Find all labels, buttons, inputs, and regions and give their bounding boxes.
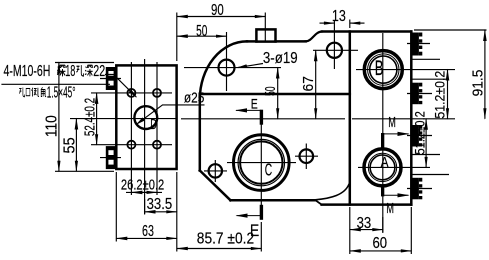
svg-text:55: 55 [61, 137, 78, 153]
section bar E bottom [260, 205, 263, 220]
hole3 h centerline [313, 49, 358, 51]
flange bolt hole 3 [127, 141, 135, 149]
right block bottom edge [322, 203, 412, 206]
bottom right fillet tail [315, 185, 348, 200]
bottom left diagonal [200, 171, 231, 201]
o19 hole h centerline [184, 67, 281, 69]
svg-text:50: 50 [262, 86, 279, 96]
section bar E top [260, 110, 263, 125]
svg-text:110: 110 [44, 115, 61, 137]
block vertical centerline [382, 33, 384, 232]
svg-text:18: 18 [65, 63, 75, 80]
section bar M top [381, 133, 384, 150]
svg-text:3-ø19: 3-ø19 [263, 50, 298, 67]
dim 52.4 [96, 93, 98, 145]
dim 55 [75, 119, 77, 172]
top line tab to fillet [276, 40, 306, 43]
flange hole column lines [131, 62, 157, 195]
section arrow M top [383, 133, 409, 135]
cjk kong 2 [19, 88, 25, 97]
plug 3 [413, 125, 423, 147]
cjk dao [32, 88, 39, 97]
C horizontal centerline [227, 162, 296, 164]
ext lines 33/60 [349, 207, 351, 254]
section bar M bottom [381, 185, 384, 197]
flange bolt hole 4 [153, 141, 161, 149]
o19 hole left [219, 60, 235, 76]
plug 4 [413, 178, 423, 200]
svg-text:91.5: 91.5 [469, 69, 485, 96]
dim 50 vertical [277, 68, 279, 119]
flange bolt hole 1 [127, 89, 135, 97]
label 4-M10 leader [105, 75, 136, 98]
svg-text:1.5×45°: 1.5×45° [47, 84, 76, 101]
main horizontal centerline [70, 118, 455, 120]
section arrow E bottom [237, 215, 262, 217]
small hole right of C [300, 149, 314, 163]
flange outline [116, 65, 176, 169]
svg-text:26.2±0.2: 26.2±0.2 [121, 176, 164, 193]
svg-text:60: 60 [373, 235, 388, 252]
tab boss [256, 29, 275, 41]
svg-text:51.2±0.2: 51.2±0.2 [432, 71, 448, 119]
plug 1 [413, 33, 423, 56]
right block left edge [349, 32, 352, 205]
svg-text:85.7 ±0.2: 85.7 ±0.2 [197, 231, 254, 248]
body bottom edge [230, 199, 315, 202]
ext lines left [55, 62, 114, 64]
body left edge [199, 94, 202, 171]
svg-text:4-M10-6H: 4-M10-6H [4, 62, 51, 79]
o19 hole v centerline [226, 32, 228, 91]
plug centerlines [100, 79, 121, 158]
flange hole row lines [91, 93, 172, 145]
svg-text:90: 90 [211, 1, 224, 18]
right small hole cross [295, 144, 318, 170]
dim 63 [116, 237, 177, 239]
svg-text:ø25: ø25 [184, 89, 204, 105]
flange vertical centerline [144, 59, 146, 214]
svg-text:22: 22 [93, 62, 105, 79]
svg-text:52.4±0.2: 52.4±0.2 [82, 98, 98, 136]
svg-text:C: C [265, 161, 273, 181]
bottom chamfer to block bottom [315, 200, 321, 204]
plug 2 [413, 83, 423, 105]
right edge small lines [412, 59, 449, 174]
cjk kou [26, 88, 30, 95]
dim 33 [350, 229, 383, 231]
ext lines bottom [115, 172, 117, 242]
dim 26.2 [126, 191, 162, 193]
hole3 v centerline [333, 21, 335, 70]
cjk kong 1 [76, 65, 83, 76]
left plug bottom [106, 146, 117, 169]
dim 51.2 upper [447, 70, 449, 119]
svg-text:33: 33 [357, 215, 372, 232]
dim 67 vertical [315, 50, 317, 119]
svg-text:13: 13 [332, 7, 346, 24]
svg-text:A: A [381, 154, 389, 170]
svg-text:E: E [251, 96, 258, 112]
svg-text:M: M [388, 114, 396, 131]
label 4-M10 shelf line [1, 83, 110, 85]
internal plate top edge [200, 93, 350, 96]
pilot hole D [134, 106, 157, 129]
svg-text:D: D [150, 116, 157, 133]
dim 85.7 [177, 248, 261, 250]
svg-text:33.5: 33.5 [147, 196, 173, 213]
cjk shen 2 [85, 65, 93, 76]
svg-text:M: M [386, 200, 394, 217]
dim 91.5 [484, 30, 486, 119]
svg-text:51.2±0.2: 51.2±0.2 [412, 111, 427, 154]
dim 13 lines [349, 20, 351, 29]
cjk jiao [41, 87, 46, 96]
cjk shen 1 [57, 65, 65, 76]
small hole left of C [209, 164, 222, 177]
dim 60 [350, 250, 412, 252]
body top arc [200, 41, 247, 99]
C vertical centerline [260, 112, 262, 216]
B horizontal centerline [356, 69, 455, 71]
o19 hole right (near 13) [327, 43, 342, 58]
dash after 22 [105, 74, 111, 76]
ext line top right [414, 29, 487, 31]
svg-text:63: 63 [142, 222, 154, 239]
ext lines for 90/50 [176, 13, 178, 62]
left plug top [106, 67, 117, 90]
dim 33.5 [145, 211, 177, 213]
dim 90 line [177, 16, 265, 18]
top fillet S-curve [306, 32, 322, 42]
section arrow E top [236, 109, 261, 111]
A horizontal centerline [358, 166, 430, 168]
svg-text:67: 67 [299, 76, 315, 91]
dim 110 [58, 63, 60, 172]
flange bolt hole 2 [153, 89, 161, 97]
dim 51.2 lower [425, 119, 427, 168]
dim 50 line [177, 35, 227, 37]
top edge of right block [322, 30, 411, 33]
section arrow M bottom [383, 194, 409, 196]
left small hole cross [204, 160, 227, 182]
svg-text:B: B [375, 56, 384, 80]
svg-text:50: 50 [196, 22, 207, 40]
right block right edge [410, 32, 413, 205]
top line arc to tab [247, 40, 256, 43]
